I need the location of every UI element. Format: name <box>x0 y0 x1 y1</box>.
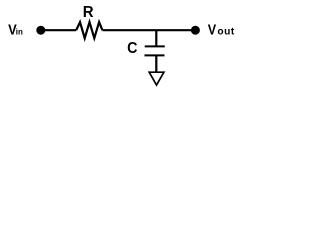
wire Vin to resistor <box>41 29 76 31</box>
capacitor C <box>145 46 165 55</box>
resistor R <box>76 22 102 38</box>
svg-text:R: R <box>83 4 94 21</box>
wire junction to capacitor <box>155 30 157 46</box>
node Vin terminal dot <box>36 26 45 35</box>
svg-text:V: V <box>208 23 216 39</box>
svg-text:C: C <box>127 40 137 57</box>
wire capacitor to ground <box>155 55 157 72</box>
ground <box>149 72 164 85</box>
node Vout label <box>208 23 235 39</box>
node Vout terminal dot <box>191 26 200 35</box>
svg-text:out: out <box>217 27 235 38</box>
node Vin label <box>8 23 23 39</box>
wire resistor to Vout <box>102 29 195 31</box>
svg-text:in: in <box>16 27 23 36</box>
